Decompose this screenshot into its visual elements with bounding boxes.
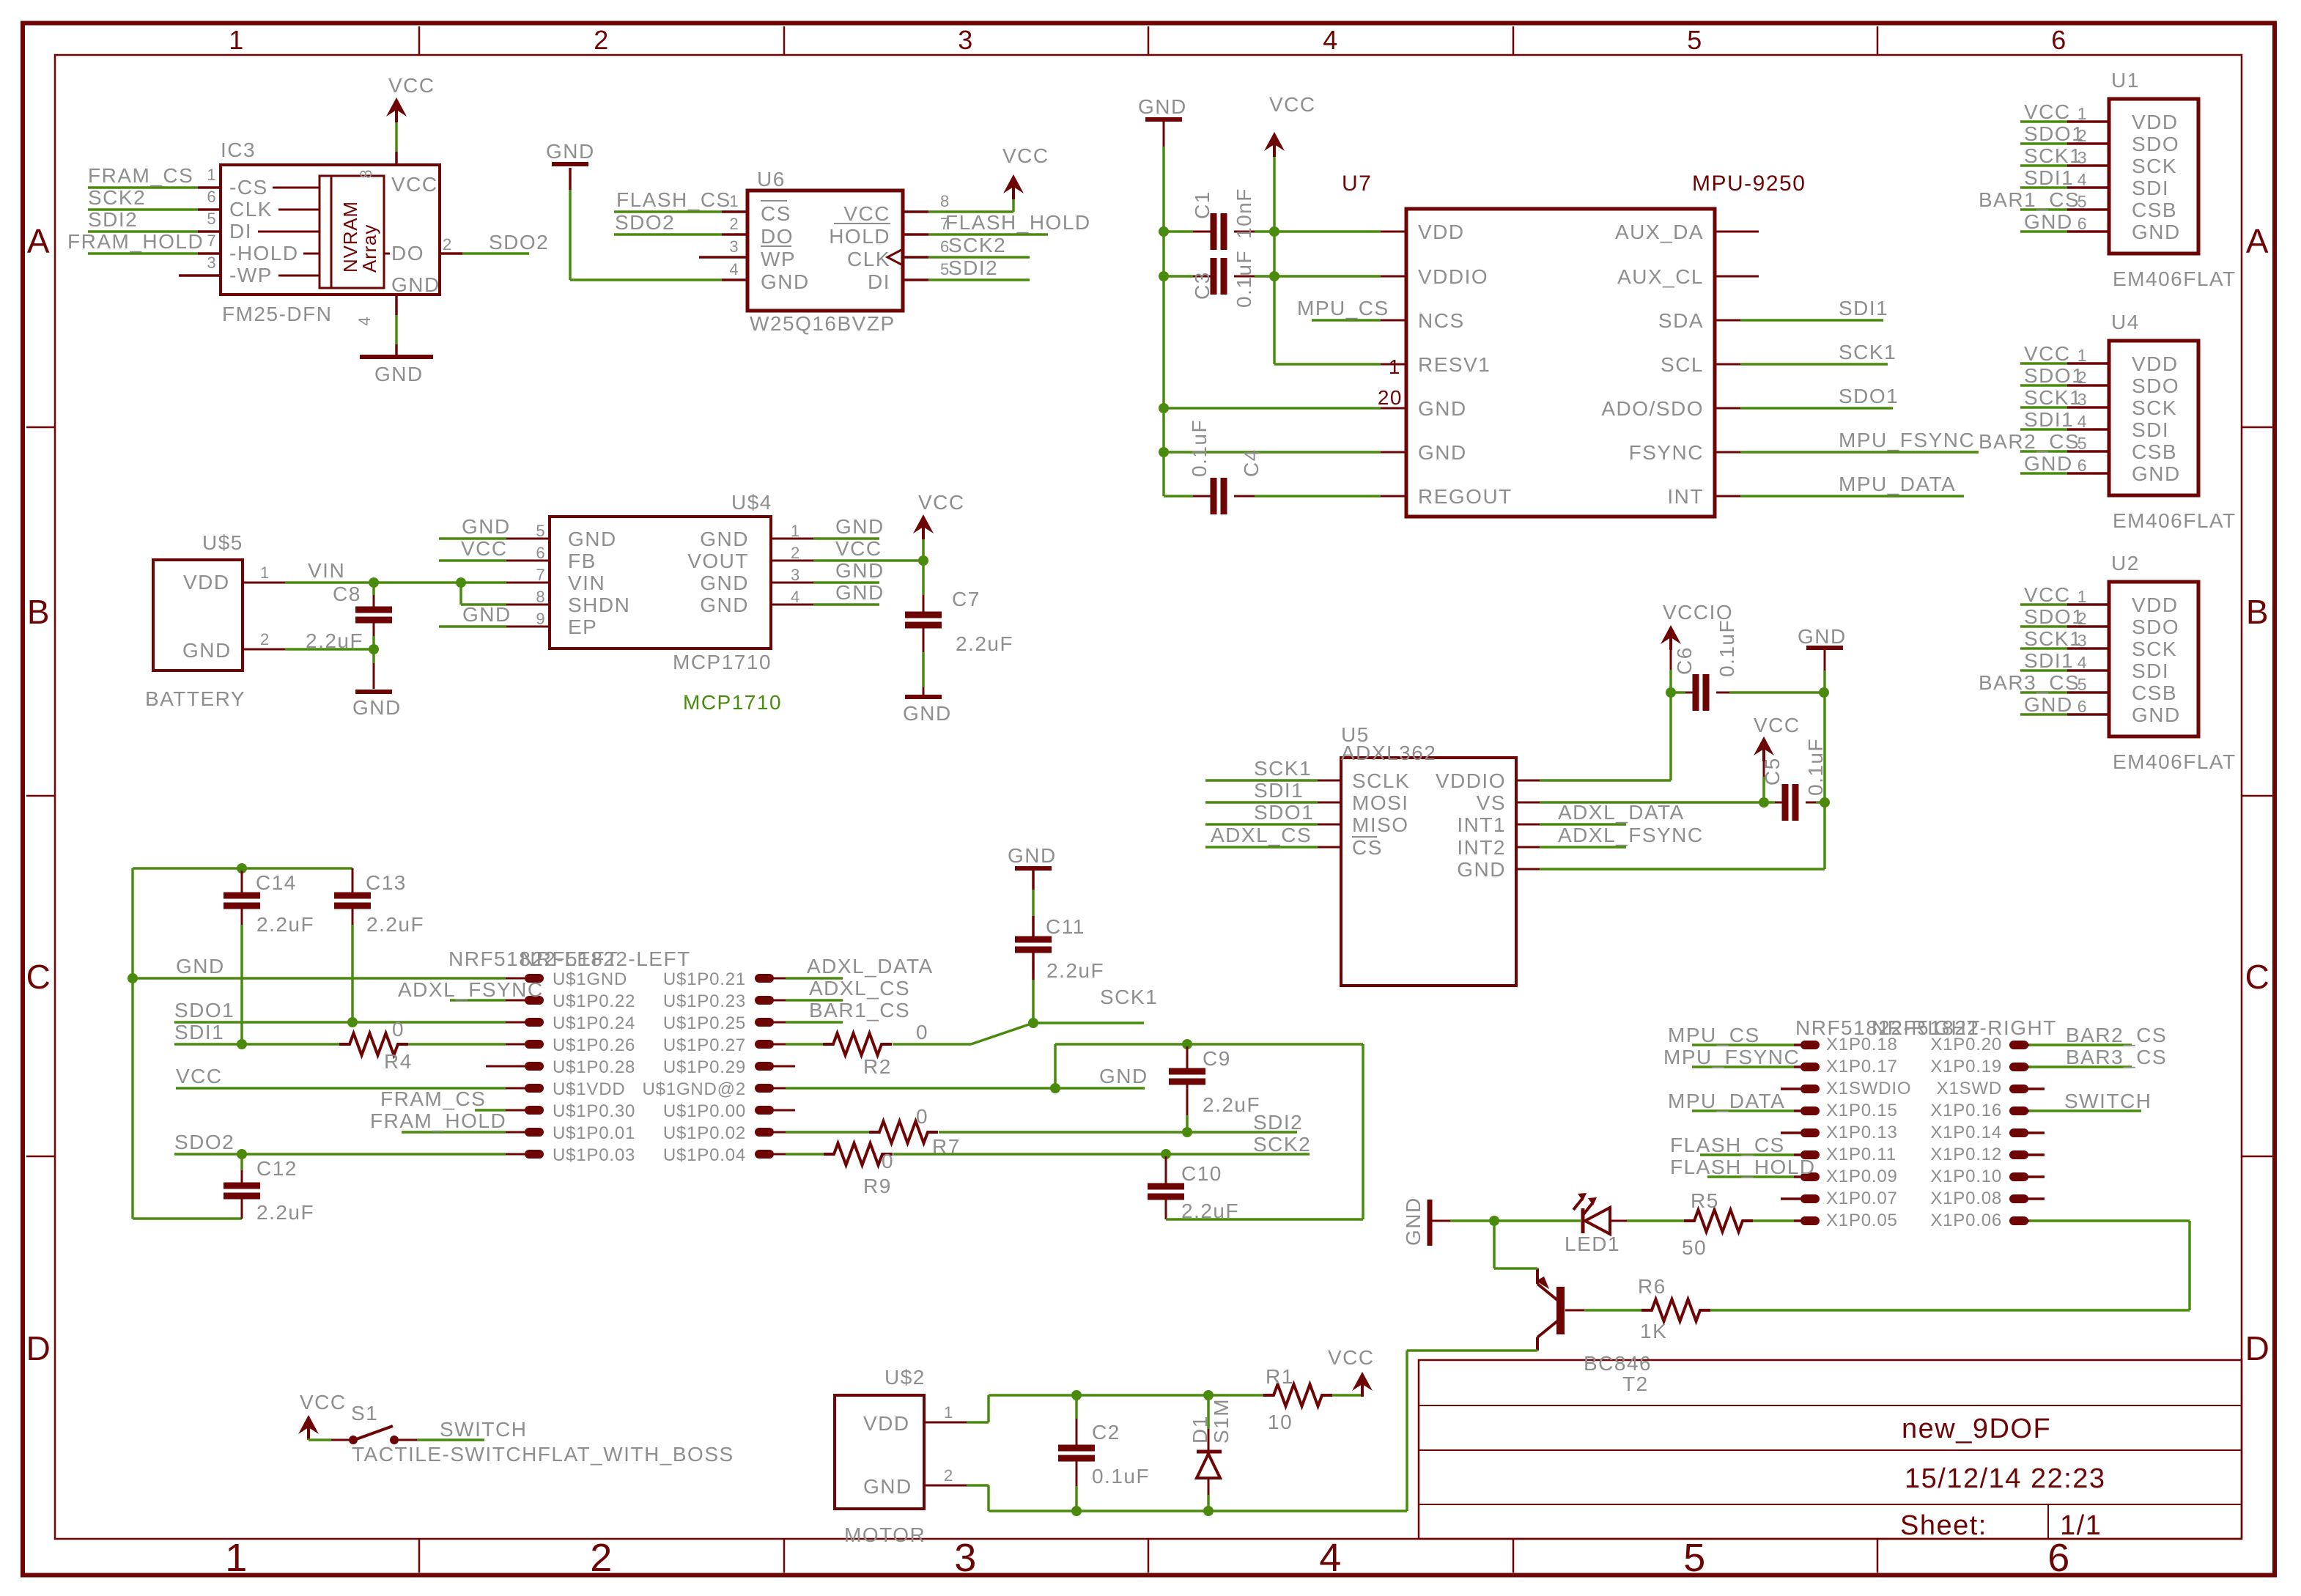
svg-text:SDI1: SDI1 <box>1839 297 1888 319</box>
nrf-right pad X1P0.20 <box>2009 1041 2028 1049</box>
svg-text:R6: R6 <box>1638 1275 1666 1298</box>
U$4 pin VIN 7 <box>506 582 550 584</box>
svg-text:CSB: CSB <box>2132 681 2177 704</box>
nvram array symbol <box>320 176 384 288</box>
svg-text:0.1uF: 0.1uF <box>1188 419 1211 477</box>
svg-text:-WP: -WP <box>229 264 273 287</box>
U7 pin AUX_CL right <box>1715 276 1759 278</box>
svg-text:D: D <box>2245 1329 2271 1367</box>
svg-text:MISO: MISO <box>1352 813 1409 836</box>
capacitor C7 <box>922 561 925 595</box>
IC3 pin GND 4 <box>395 295 398 315</box>
wire U5 VDDIO to VCCIO <box>1540 779 1671 782</box>
net SDO1 to nrf-left <box>174 1021 506 1024</box>
wire U6 VCC pin8 <box>928 210 1013 213</box>
U$4 pin FB 6 <box>506 560 550 562</box>
connector U1 box <box>2109 99 2198 254</box>
IC3 pin -HOLD 7 <box>198 252 221 255</box>
wire GND to U6 pin4 <box>569 168 572 190</box>
svg-text:C3: C3 <box>1191 271 1214 300</box>
svg-text:0.1uF: 0.1uF <box>1715 619 1738 677</box>
svg-text:1: 1 <box>2077 346 2087 365</box>
regulator U$4 box <box>550 517 771 649</box>
svg-text:SDO: SDO <box>2132 374 2179 397</box>
U1 pin VDD 1 <box>2067 120 2109 123</box>
svg-text:CSB: CSB <box>2132 440 2177 463</box>
svg-text:VCC: VCC <box>300 1391 347 1414</box>
svg-text:INT2: INT2 <box>1457 836 1506 859</box>
svg-text:B: B <box>27 593 51 631</box>
net SCK1 from U7 SCL <box>1740 363 1888 366</box>
svg-text:SCK1: SCK1 <box>2024 386 2082 409</box>
svg-text:Sheet:: Sheet: <box>1900 1510 1987 1541</box>
svg-text:VIN: VIN <box>568 572 605 594</box>
svg-text:FRAM_CS: FRAM_CS <box>380 1087 486 1110</box>
power VCC left of U7 <box>1264 132 1285 151</box>
nrf-left pad U$1P0.30 <box>506 1109 526 1112</box>
svg-text:2.2uF: 2.2uF <box>1203 1093 1260 1116</box>
svg-text:SDO1: SDO1 <box>2024 122 2084 145</box>
nrf-right pad X1P0.17 <box>1794 1065 1803 1068</box>
svg-text:4: 4 <box>791 588 800 606</box>
svg-text:FB: FB <box>568 550 597 572</box>
svg-text:U7: U7 <box>1342 171 1372 196</box>
svg-text:0.1uF: 0.1uF <box>1804 738 1827 796</box>
IC3 pin -WP 3 <box>179 274 221 277</box>
net SDI1 from U7 SDA <box>1740 319 1883 322</box>
svg-text:INT: INT <box>1667 485 1704 508</box>
frame row ticks right <box>2242 426 2273 429</box>
svg-text:VDD: VDD <box>1418 221 1465 243</box>
net VCC to U1 <box>2020 120 2067 123</box>
net GND to nrf-left <box>133 977 506 980</box>
net SDO2 from IC3 <box>462 252 529 255</box>
net SDI1 to U5 <box>1205 801 1318 804</box>
net MPU_CS to nrf-right <box>1692 1043 1794 1046</box>
svg-text:GND: GND <box>700 528 749 550</box>
svg-text:15/12/14 22:23: 15/12/14 22:23 <box>1905 1463 2106 1494</box>
svg-text:R4: R4 <box>384 1050 413 1073</box>
net ADXL_FSYNC to nrf-left <box>450 999 506 1002</box>
svg-text:GND: GND <box>2024 452 2073 475</box>
svg-text:U$2: U$2 <box>884 1366 926 1389</box>
svg-text:NRF51822-LEFT: NRF51822-LEFT <box>520 947 691 970</box>
svg-text:CSB: CSB <box>2132 199 2177 221</box>
net FRAM_CS to nrf-left <box>475 1109 506 1112</box>
ground right of C6 <box>1806 646 1843 650</box>
net FRAM_HOLD to nrf-left <box>402 1131 506 1134</box>
svg-text:1: 1 <box>229 25 245 55</box>
svg-text:GND: GND <box>863 1475 912 1498</box>
U1 pin CSB 5 <box>2067 208 2109 211</box>
U$4 pin GND 3 <box>771 582 813 584</box>
svg-text:SCK2: SCK2 <box>948 234 1006 256</box>
U5 pin MISO <box>1318 824 1341 826</box>
wire U5 VS <box>1540 801 1764 804</box>
motor pin 2 <box>924 1485 967 1487</box>
net SDO1 to U2 <box>2020 625 2067 628</box>
svg-text:S1: S1 <box>351 1402 378 1425</box>
svg-text:Array: Array <box>358 224 380 273</box>
svg-text:GND: GND <box>1418 441 1467 464</box>
gnd link wire <box>1054 1044 1057 1088</box>
U2 pin CSB 5 <box>2067 691 2109 694</box>
nrf-left pad U$1P0.26 <box>506 1043 526 1046</box>
svg-text:MPU_DATA: MPU_DATA <box>1839 473 1956 495</box>
ground above C11 <box>1015 866 1052 871</box>
U5 pin VDDIO right <box>1516 780 1540 782</box>
svg-text:2.2uF: 2.2uF <box>1046 959 1104 982</box>
U1 pin SDI 4 <box>2067 186 2109 189</box>
svg-text:BAR3_CS: BAR3_CS <box>2066 1046 2167 1068</box>
U7 pin VDD left <box>1381 231 1406 233</box>
svg-text:SDI: SDI <box>2132 418 2169 441</box>
svg-text:SDI: SDI <box>2132 660 2169 682</box>
svg-text:2: 2 <box>729 215 739 233</box>
wire VCC to IC3 <box>395 118 398 152</box>
svg-text:-HOLD: -HOLD <box>229 242 299 265</box>
U$4 pin SHDN 8 <box>506 604 550 606</box>
net MPU_FSYNC to nrf-right <box>1692 1065 1794 1068</box>
svg-text:3: 3 <box>954 1536 978 1580</box>
svg-text:DO: DO <box>761 225 794 248</box>
svg-text:FLASH_HOLD: FLASH_HOLD <box>1670 1156 1816 1178</box>
svg-text:CS: CS <box>761 202 791 225</box>
svg-text:2.2uF: 2.2uF <box>366 913 424 936</box>
svg-text:BAR3_CS: BAR3_CS <box>1979 671 2080 694</box>
svg-text:C: C <box>2245 958 2271 996</box>
ground left of U6 <box>552 162 588 166</box>
svg-text:SDO1: SDO1 <box>2024 364 2084 387</box>
resistor R9 <box>786 1153 824 1156</box>
svg-text:VS: VS <box>1477 791 1506 814</box>
svg-text:C2: C2 <box>1092 1421 1120 1444</box>
U5 pin VS right <box>1516 802 1540 804</box>
svg-text:VCC: VCC <box>2024 342 2071 365</box>
svg-text:S1M: S1M <box>1210 1398 1233 1444</box>
U1 pin GND 6 <box>2067 230 2109 233</box>
U1 pin SDO 2 <box>2067 142 2109 145</box>
svg-text:4: 4 <box>2077 653 2087 672</box>
U7 pin NCS left <box>1381 319 1406 322</box>
svg-text:X1P0.11: X1P0.11 <box>1826 1145 1896 1164</box>
svg-text:U$1P0.29: U$1P0.29 <box>663 1057 746 1077</box>
nrf-right pad X1P0.05 <box>1794 1219 1803 1222</box>
svg-text:4: 4 <box>1319 1536 1342 1580</box>
net GND to U1 <box>2020 230 2067 233</box>
nrf-left pad U$1P0.28 <box>486 1065 526 1068</box>
wire U5 GND pin <box>1540 868 1825 871</box>
svg-text:SDO1: SDO1 <box>1839 385 1899 407</box>
wire R1 to VCC <box>1332 1394 1362 1397</box>
svg-text:SDI1: SDI1 <box>2024 408 2074 431</box>
svg-text:SDO2: SDO2 <box>489 231 549 254</box>
net SCK1 to U5 <box>1205 779 1318 782</box>
wire VCC rail to U7 VDD VDDIO RESV1 <box>1273 157 1276 364</box>
svg-text:8: 8 <box>536 588 545 606</box>
net BAR2_CS from nrf-right <box>2029 1043 2132 1046</box>
svg-text:GND: GND <box>546 140 595 163</box>
U6 pin VCC 8 <box>903 210 928 213</box>
svg-text:C12: C12 <box>256 1157 298 1180</box>
svg-text:U$1P0.24: U$1P0.24 <box>553 1013 635 1033</box>
svg-text:8: 8 <box>357 169 375 179</box>
IC3 pin CLK 6 <box>198 208 221 211</box>
svg-text:3: 3 <box>729 237 739 256</box>
svg-text:SDI2: SDI2 <box>948 256 998 279</box>
svg-text:7: 7 <box>207 232 216 250</box>
svg-text:FSYNC: FSYNC <box>1629 441 1704 464</box>
net FRAM_CS to IC3 <box>88 186 198 189</box>
U$4 pin VOUT 2 <box>771 560 813 562</box>
nrf-left pad U$1P0.27 <box>755 1040 774 1049</box>
svg-text:X1P0.08: X1P0.08 <box>1930 1189 2002 1208</box>
svg-text:1: 1 <box>2077 104 2087 123</box>
svg-text:C13: C13 <box>366 871 407 894</box>
svg-text:4: 4 <box>1323 25 1339 55</box>
nrf-left pad U$1P0.01 <box>506 1131 526 1134</box>
net GND from U$4 pin1 <box>813 537 879 540</box>
svg-text:B: B <box>2246 593 2269 631</box>
svg-text:U$1P0.00: U$1P0.00 <box>663 1101 746 1121</box>
capacitor C13 <box>352 868 354 895</box>
svg-text:FLASH_CS: FLASH_CS <box>1670 1134 1785 1156</box>
motor U$2 box <box>835 1395 924 1509</box>
svg-text:WP: WP <box>761 248 796 270</box>
net SDO2 to nrf-left <box>174 1153 506 1156</box>
svg-text:2.2uF: 2.2uF <box>256 1201 314 1224</box>
wire U7 GND pin20 <box>1164 407 1381 410</box>
net BAR2_CS to U4 <box>2020 450 2067 453</box>
svg-text:1: 1 <box>260 564 270 582</box>
ground above U7 <box>1145 117 1182 122</box>
net VIN wire battery to U$4 <box>285 581 506 584</box>
battery U$5 box <box>153 560 243 670</box>
svg-text:X1P0.14: X1P0.14 <box>1930 1123 2002 1142</box>
resistor R1 <box>1263 1384 1332 1406</box>
U2 pin SDO 2 <box>2067 625 2109 628</box>
svg-text:R9: R9 <box>863 1175 892 1197</box>
svg-text:C: C <box>26 958 52 996</box>
net SDO1 to U1 <box>2020 142 2067 145</box>
U7 pin ADO/SDO right <box>1715 407 1740 410</box>
svg-text:R5: R5 <box>1691 1189 1719 1212</box>
svg-text:GND: GND <box>835 515 884 538</box>
switch S1 <box>331 1439 349 1441</box>
U6 pin CLK 6 with clock wedge <box>903 256 928 259</box>
U4 pin CSB 5 <box>2067 450 2109 453</box>
svg-text:ADXL_FSYNC: ADXL_FSYNC <box>1558 824 1704 846</box>
nrf-right pad X1P0.11 <box>1794 1153 1803 1156</box>
svg-text:GND: GND <box>903 702 952 725</box>
nrf-right pad X1P0.09 <box>1794 1175 1803 1178</box>
svg-text:X1P0.17: X1P0.17 <box>1826 1057 1898 1076</box>
svg-text:GND: GND <box>1457 858 1506 881</box>
svg-text:SCK1: SCK1 <box>1254 757 1312 780</box>
svg-text:X1P0.20: X1P0.20 <box>1930 1035 2002 1054</box>
svg-text:0: 0 <box>392 1018 405 1041</box>
net MPU_DATA from U7 INT <box>1740 495 1964 498</box>
wire U7 GND pin <box>1164 451 1381 454</box>
capacitor C1 <box>1164 230 1193 233</box>
svg-text:A: A <box>27 222 51 260</box>
svg-text:A: A <box>2246 222 2269 260</box>
svg-text:SHDN: SHDN <box>568 594 630 616</box>
ground below IC3 <box>360 355 433 359</box>
svg-text:C6: C6 <box>1673 646 1696 675</box>
svg-text:U$1VDD: U$1VDD <box>553 1079 626 1099</box>
svg-text:MOTOR: MOTOR <box>844 1523 926 1546</box>
net SDI2 to IC3 <box>88 230 198 233</box>
nrf-right pad X1SWDIO <box>1781 1087 1803 1090</box>
frame row ticks left <box>26 426 55 429</box>
svg-text:C5: C5 <box>1761 757 1784 786</box>
capacitor C6 <box>1671 691 1685 694</box>
svg-text:C9: C9 <box>1203 1047 1231 1070</box>
svg-text:6: 6 <box>2047 1536 2071 1580</box>
svg-text:SDO1: SDO1 <box>1254 801 1314 824</box>
svg-text:GND: GND <box>700 594 749 616</box>
svg-text:VDDIO: VDDIO <box>1436 769 1506 792</box>
power VCC right of U6 <box>1003 174 1024 193</box>
nrf-left pad U$1P0.22 <box>506 1000 526 1002</box>
U7 pin SDA right <box>1715 319 1740 322</box>
U2 pin GND 6 <box>2067 713 2109 716</box>
svg-text:U$1P0.28: U$1P0.28 <box>553 1057 635 1077</box>
svg-text:GND: GND <box>2132 221 2181 243</box>
svg-text:3: 3 <box>791 566 800 584</box>
svg-text:AUX_CL: AUX_CL <box>1617 265 1704 288</box>
net SDI1 to U1 <box>2020 186 2067 189</box>
net SDI1 to U2 <box>2020 669 2067 672</box>
gnd return wires right <box>1166 1218 1363 1221</box>
svg-text:GND: GND <box>2024 210 2073 233</box>
nrf-right pad X1P0.19 <box>2009 1063 2028 1071</box>
svg-text:SCL: SCL <box>1661 353 1704 376</box>
svg-text:SWITCH: SWITCH <box>2064 1090 2152 1112</box>
svg-text:GND: GND <box>391 273 440 296</box>
svg-text:VDD: VDD <box>2132 111 2179 133</box>
svg-text:BATTERY: BATTERY <box>145 687 245 710</box>
U$4 pin GND 5 <box>506 538 550 540</box>
svg-text:U$1P0.22: U$1P0.22 <box>553 991 635 1011</box>
U$4 pin EP 9 <box>506 626 550 628</box>
svg-text:SCK: SCK <box>2132 155 2177 177</box>
svg-text:9: 9 <box>536 610 545 628</box>
net SWITCH from nrf-right <box>2029 1109 2141 1112</box>
net BAR1_CS from nrf-left <box>786 1021 843 1024</box>
power VCCIO <box>1661 625 1681 644</box>
svg-text:U$1P0.03: U$1P0.03 <box>553 1145 635 1165</box>
svg-text:EM406FLAT: EM406FLAT <box>2113 509 2237 532</box>
svg-text:U6: U6 <box>757 168 786 191</box>
svg-text:1: 1 <box>2077 587 2087 606</box>
svg-text:U4: U4 <box>2111 311 2140 333</box>
svg-text:GND: GND <box>1138 95 1187 118</box>
transistor T2 <box>1556 1287 1565 1334</box>
ground left of LED1 rotated <box>1427 1200 1433 1246</box>
wire LED1 to R5 <box>1610 1220 1627 1222</box>
capacitor C12 <box>240 1154 243 1170</box>
motor pin 1 <box>924 1422 967 1424</box>
U4 pin SCK 3 <box>2067 406 2109 409</box>
svg-text:10: 10 <box>1268 1411 1293 1433</box>
svg-text:8: 8 <box>940 192 950 210</box>
net ADXL_FSYNC from U5 INT2 <box>1540 846 1626 849</box>
svg-text:VDD: VDD <box>183 571 230 594</box>
U$4 pin GND 1 <box>771 538 813 540</box>
svg-text:5: 5 <box>1687 25 1703 55</box>
net BAR3_CS to U2 <box>2020 691 2067 694</box>
U4 pin SDO 2 <box>2067 384 2109 387</box>
U2 pin SCK 3 <box>2067 647 2109 650</box>
net ADXL_CS from nrf-left <box>786 999 843 1002</box>
svg-text:C10: C10 <box>1181 1162 1222 1185</box>
svg-text:SCK1: SCK1 <box>1839 341 1896 363</box>
wire nrf-right P0.06 to R6 <box>2029 1219 2190 1222</box>
nrf-right pad X1SWD <box>2009 1085 2028 1093</box>
net SCK1 wire from junction <box>1033 1021 1144 1024</box>
svg-text:U$4: U$4 <box>731 491 772 514</box>
svg-text:GND: GND <box>462 515 511 538</box>
svg-text:SDI2: SDI2 <box>1253 1111 1303 1134</box>
connector U2 box <box>2109 582 2198 736</box>
svg-text:HOLD: HOLD <box>829 225 890 248</box>
svg-text:MPU_FSYNC: MPU_FSYNC <box>1663 1046 1800 1068</box>
svg-text:C4: C4 <box>1240 448 1263 477</box>
nvram IC3 box <box>221 165 440 295</box>
svg-text:3: 3 <box>958 25 974 55</box>
U7 pin REGOUT left <box>1381 495 1406 498</box>
svg-text:AUX_DA: AUX_DA <box>1615 221 1704 243</box>
nrf-left pad U$1GND@2 <box>755 1084 774 1093</box>
wire R6 to T2 base <box>1584 1309 1641 1312</box>
nrf-right pad X1P0.16 <box>2009 1107 2028 1115</box>
svg-text:GND: GND <box>2024 693 2073 716</box>
svg-text:6: 6 <box>2077 214 2087 233</box>
net ADXL_DATA from nrf-left <box>786 977 843 980</box>
svg-text:SDA: SDA <box>1658 309 1704 332</box>
svg-text:EM406FLAT: EM406FLAT <box>2113 267 2237 290</box>
svg-text:U$1P0.04: U$1P0.04 <box>663 1145 746 1165</box>
power VCC above IC3 <box>386 97 407 117</box>
svg-text:CLK: CLK <box>229 198 273 221</box>
resistor R7 <box>786 1131 869 1134</box>
battery pin 1 <box>243 582 285 584</box>
nrf-left pad U$1P0.29 <box>755 1062 774 1071</box>
svg-text:TACTILE-SWITCHFLAT_WITH_BOSS: TACTILE-SWITCHFLAT_WITH_BOSS <box>352 1443 734 1466</box>
nrf-left pad U$1P0.23 <box>755 996 774 1005</box>
IC3 pin DO 2 <box>440 252 462 255</box>
net VCC to U2 <box>2020 603 2067 606</box>
net FLASH_CS to U6 <box>614 210 722 213</box>
U7 pin INT right <box>1715 495 1740 498</box>
nrf-left pad U$1P0.00 <box>755 1106 774 1115</box>
net VCC to U4 <box>2020 362 2067 365</box>
svg-text:ADXL_FSYNC: ADXL_FSYNC <box>398 978 544 1001</box>
svg-text:20: 20 <box>1378 386 1403 409</box>
svg-text:MPU_FSYNC: MPU_FSYNC <box>1839 429 1975 451</box>
svg-text:EP: EP <box>568 616 597 638</box>
svg-text:1/1: 1/1 <box>2060 1510 2102 1541</box>
svg-text:SWITCH: SWITCH <box>440 1418 527 1441</box>
power VCC above C5 <box>1754 736 1774 755</box>
U4 pin SDI 4 <box>2067 428 2109 431</box>
nrf-right pad X1P0.10 <box>2009 1172 2028 1181</box>
svg-text:MPU_CS: MPU_CS <box>1668 1024 1760 1046</box>
wire battery gnd <box>285 648 374 651</box>
svg-text:VDD: VDD <box>2132 352 2179 375</box>
